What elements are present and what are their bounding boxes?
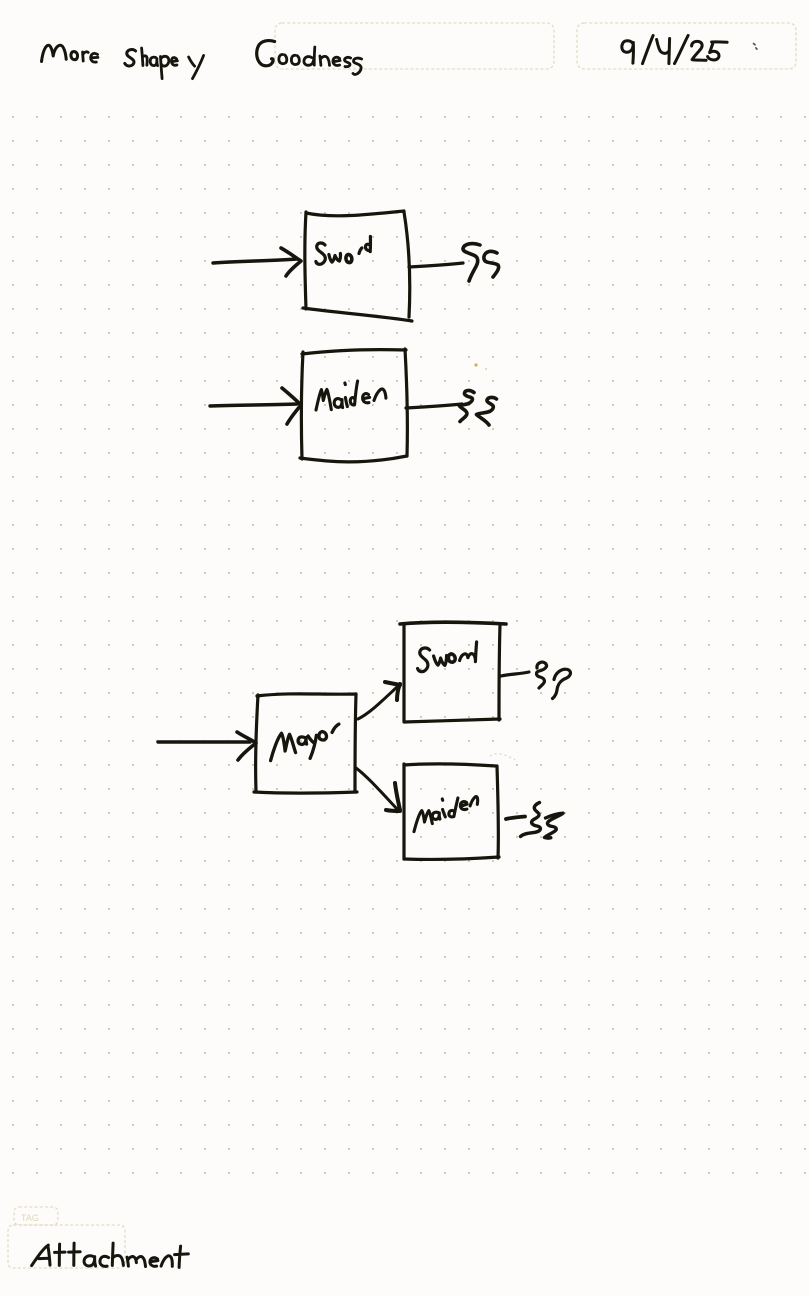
svg-text:TAG: TAG <box>21 1213 39 1223</box>
